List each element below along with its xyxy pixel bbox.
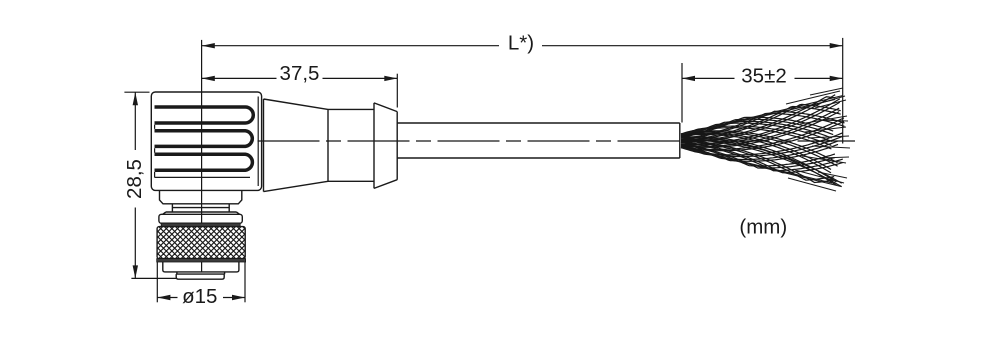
washer	[159, 214, 242, 223]
extension line right of ø15	[244, 260, 246, 303]
body bottom lip line	[155, 176, 251, 178]
dimension L*) horizontal line	[202, 43, 843, 48]
extension line left of ø15	[156, 260, 158, 303]
svg-text:28,5: 28,5	[123, 159, 146, 199]
collar below body	[160, 190, 242, 203]
svg-text:37,5: 37,5	[280, 62, 320, 85]
lower band	[163, 262, 239, 272]
knurled nut	[125, 227, 275, 259]
dimension 28,5 vertical line	[133, 92, 138, 278]
vertical centerline of connector	[201, 92, 203, 272]
svg-text:(mm): (mm)	[739, 216, 787, 239]
conical washer top	[163, 212, 240, 214]
cable centerline (dash-dot)	[258, 140, 856, 142]
dark strip above knurl	[161, 223, 240, 226]
svg-text:L*): L*)	[508, 32, 534, 55]
grip rib left edge steps	[154, 125, 156, 178]
dimension ø15 horizontal line	[157, 295, 245, 300]
extension line top of 28,5	[124, 91, 149, 93]
svg-text:35±2: 35±2	[741, 64, 786, 87]
extension line at wire tips (right end)	[842, 38, 844, 144]
frayed wire broom	[681, 95, 845, 187]
grip rib 2	[155, 131, 253, 147]
dark strip below knurl	[157, 259, 246, 262]
extension line at x=397 (end of 37,5)	[396, 74, 398, 108]
svg-text:ø15: ø15	[182, 285, 217, 308]
strain relief cone	[264, 99, 329, 192]
grip rib 3	[155, 154, 253, 170]
stray wire tips	[786, 88, 850, 191]
bottom disc	[176, 274, 224, 279]
strain relief flare	[374, 103, 397, 188]
neck	[172, 204, 229, 212]
extension line at connector axis top	[201, 40, 203, 92]
connector body inner right edge	[257, 97, 259, 187]
strain relief cylinder	[328, 109, 374, 181]
small step ring	[177, 272, 225, 274]
wire broom envelope edges	[681, 96, 843, 187]
extension line bottom of 28,5	[131, 277, 177, 279]
dimension 35±2 horizontal line	[682, 76, 843, 81]
connector body outline	[151, 92, 261, 190]
cable jacket	[397, 123, 680, 158]
dimension 37,5 horizontal line	[202, 76, 397, 81]
extension line at cable end (start of 35±2)	[681, 63, 683, 123]
grip rib 1	[155, 107, 254, 123]
